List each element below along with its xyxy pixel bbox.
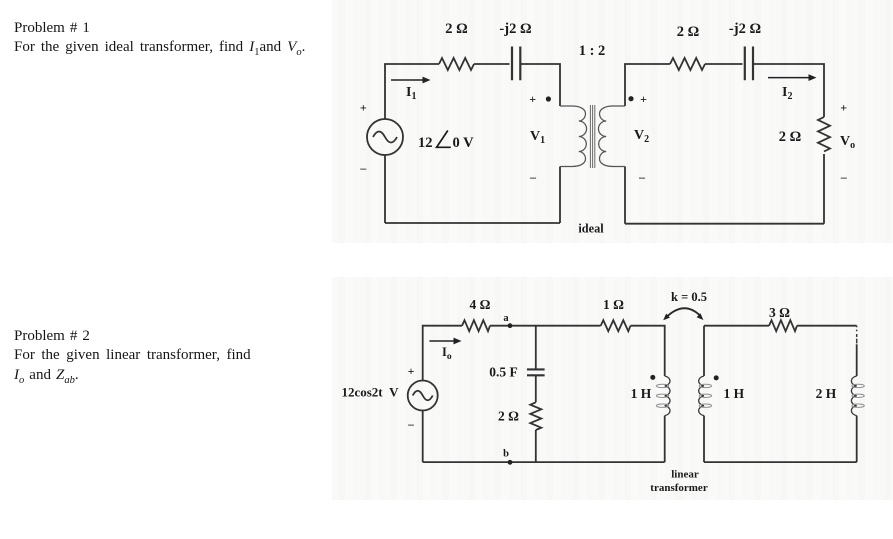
svg-text:0 V: 0 V	[453, 135, 475, 151]
svg-text:ideal: ideal	[578, 222, 604, 236]
svg-text:12cos2t V: 12cos2t V	[341, 385, 399, 400]
svg-text:–: –	[529, 170, 537, 184]
svg-text:+: +	[408, 366, 415, 378]
svg-text:k = 0.5: k = 0.5	[671, 290, 707, 304]
svg-text:+: +	[640, 92, 647, 106]
svg-text:+: +	[529, 92, 536, 106]
svg-text:transformer: transformer	[650, 482, 708, 494]
svg-text:Vo: Vo	[840, 134, 855, 151]
svg-text:-j2 Ω: -j2 Ω	[499, 21, 531, 37]
svg-text:1 H: 1 H	[723, 386, 744, 401]
svg-text:linear: linear	[671, 469, 699, 481]
svg-text:Io: Io	[442, 345, 452, 362]
svg-text:1 : 2: 1 : 2	[579, 43, 606, 59]
svg-text:2 Ω: 2 Ω	[445, 21, 468, 37]
svg-text:V1: V1	[530, 129, 545, 146]
svg-text:12: 12	[418, 135, 433, 151]
svg-text:2 Ω: 2 Ω	[677, 24, 700, 40]
svg-text:I2: I2	[782, 85, 792, 102]
svg-text:1 H: 1 H	[631, 386, 652, 401]
svg-text:I1: I1	[406, 85, 416, 102]
svg-text:b: b	[503, 449, 509, 460]
svg-text:a: a	[503, 313, 509, 324]
svg-text:–: –	[638, 170, 646, 184]
svg-text:–: –	[840, 170, 848, 184]
svg-text:–: –	[407, 419, 414, 431]
svg-text:2 Ω: 2 Ω	[779, 129, 802, 145]
svg-text:1 Ω: 1 Ω	[603, 297, 624, 312]
svg-text:2 Ω: 2 Ω	[498, 409, 519, 424]
svg-text:–: –	[359, 161, 367, 175]
svg-text:+: +	[840, 101, 847, 115]
svg-text:-j2 Ω: -j2 Ω	[729, 21, 761, 37]
svg-text:4 Ω: 4 Ω	[470, 297, 491, 312]
svg-text:3 Ω: 3 Ω	[769, 305, 790, 320]
svg-text:V2: V2	[634, 128, 649, 145]
svg-text:2 H: 2 H	[816, 386, 837, 401]
svg-text:0.5 F: 0.5 F	[489, 365, 518, 380]
svg-text:+: +	[360, 101, 367, 115]
